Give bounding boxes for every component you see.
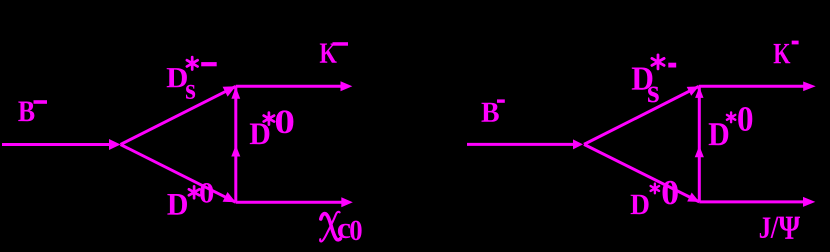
- label Psi of J/psi (right): [779, 217, 800, 239]
- superscript star of Ds*- (left): [187, 57, 198, 69]
- wire: incoming B- line (right): [467, 143, 577, 146]
- superscript minus of Ds*- (left): [201, 62, 217, 66]
- arrowhead on chi_c0 line (left): [341, 197, 353, 207]
- label J of J/psi (right): [760, 218, 771, 238]
- label D of lower D*0 (right): [631, 195, 649, 215]
- arrowhead on K- line (right): [803, 82, 816, 92]
- superscript minus of B- (left): [34, 100, 48, 104]
- superscript minus of Ds*- (right): [668, 63, 676, 68]
- superscript minus of B- (right): [497, 99, 505, 102]
- subscript 0 of chi_c0 (left): [350, 221, 361, 241]
- wire: D*0 vertical propagator (left): [234, 86, 237, 202]
- label D of Ds*- (left): [167, 68, 187, 87]
- top arrowhead on vertical propagator (left): [231, 87, 240, 99]
- superscript minus of K- (left): [333, 42, 349, 46]
- arrowhead on Ds*- line (left): [223, 86, 236, 96]
- subscript s of Ds*- (right): [648, 87, 659, 103]
- wire: outgoing K- line (left): [236, 85, 344, 88]
- arrowhead on K- line (left): [341, 81, 353, 91]
- arrowhead on Ds*- line (right): [687, 86, 699, 95]
- superscript minus of K- (right): [792, 41, 799, 45]
- wire: D*0 lower diagonal line (left): [121, 145, 236, 203]
- arrowhead on B- line (left): [109, 139, 121, 150]
- arrowhead on J/psi line (right): [803, 197, 815, 207]
- superscript star of lower D*0 (right): [651, 184, 660, 194]
- top arrowhead on vertical propagator (right): [695, 87, 703, 98]
- superscript star of lower D*0 (left): [189, 186, 199, 198]
- arrowhead on lower D*0 line (right): [687, 193, 699, 202]
- superscript 0 of lower D*0 (right): [663, 181, 678, 205]
- subscript s of Ds*- (left): [186, 85, 195, 99]
- slash of J/psi (right): [771, 217, 779, 238]
- wire: incoming B- line (left): [2, 143, 114, 146]
- mid arrowhead on vertical propagator (left): [231, 145, 240, 157]
- wire: Ds*- diagonal line (right): [584, 86, 699, 144]
- superscript star of Ds*- (right): [652, 55, 664, 69]
- wire: outgoing K- line (right): [699, 85, 806, 88]
- superscript 0 of middle D*0 (left): [276, 110, 293, 133]
- superscript 0 of middle D*0 (right): [738, 107, 752, 131]
- label K of K- (right): [774, 44, 791, 63]
- subscript c of chi_c0 (left): [338, 224, 350, 239]
- label K of K- (left): [320, 43, 337, 62]
- label D of middle D*0 (left): [250, 124, 270, 145]
- label B of B- (left): [18, 101, 34, 121]
- label D of lower D*0 (left): [167, 194, 187, 215]
- wire: outgoing chi_c0 line (left): [236, 201, 344, 204]
- superscript star of middle D*0 (right): [727, 112, 735, 122]
- label D of middle D*0 (right): [709, 123, 729, 145]
- label B of B- (right): [482, 103, 499, 122]
- superscript 0 of lower D*0 (left): [200, 183, 213, 203]
- mid arrowhead on vertical propagator (right): [695, 146, 704, 158]
- arrowhead on lower D*0 line (left): [223, 192, 236, 202]
- label chi of chi_c0 (left), Computer-Modern style curvy chi: [321, 214, 341, 240]
- wire: D*0 lower diagonal line (right): [584, 144, 699, 202]
- arrowhead on B- line (right): [573, 139, 583, 149]
- wire: outgoing J/psi line (right): [699, 200, 805, 203]
- superscript star of middle D*0 (left): [264, 113, 274, 125]
- wire: Ds*- diagonal line (left): [121, 86, 236, 144]
- wire: D*0 vertical propagator (right): [698, 86, 701, 201]
- label D of Ds*- (right): [632, 67, 653, 89]
